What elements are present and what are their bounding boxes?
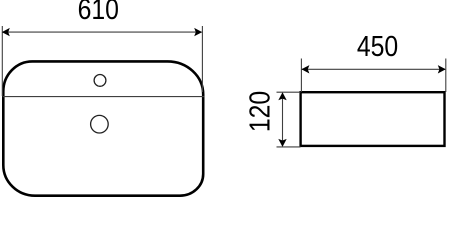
basin rim line [3, 96, 205, 98]
dim 120 extension line bottom [277, 146, 301, 148]
dim 120 arrow bottom [278, 139, 286, 147]
side view rectangle [301, 92, 445, 146]
dim 120 arrow top [278, 92, 286, 100]
dim 610 arrow right [194, 28, 202, 36]
svg-text:120: 120 [244, 91, 276, 132]
dim 610 extension line right [201, 26, 203, 92]
dim 450 extension line right [445, 59, 447, 93]
dim 450 line [302, 68, 445, 70]
svg-text:610: 610 [78, 0, 119, 25]
dim 450 arrow right [438, 65, 446, 73]
dim 610 extension line left [1, 26, 3, 96]
dim 450 extension line left [300, 59, 302, 93]
dim 610 line [3, 31, 202, 33]
dim 120 extension line top [277, 91, 301, 93]
dim 450 arrow left [301, 65, 309, 73]
drain hole (large circle) [91, 115, 109, 133]
basin outline (top view) [3, 61, 203, 195]
faucet hole (small circle) [94, 75, 106, 87]
svg-text:450: 450 [357, 31, 398, 63]
dim 610 arrow left [2, 28, 10, 36]
dim 120 line [282, 93, 284, 146]
